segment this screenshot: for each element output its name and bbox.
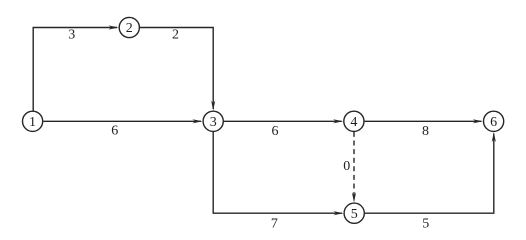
wire edge 1->3 (horizontal) (43, 119, 202, 123)
svg-text:3: 3 (210, 115, 217, 130)
wire edge 5->6 (right then up) (365, 132, 496, 213)
svg-text:7: 7 (271, 216, 278, 228)
svg-text:3: 3 (68, 28, 75, 43)
svg-text:2: 2 (126, 21, 133, 36)
svg-text:1: 1 (29, 115, 36, 130)
node 2 circle (119, 17, 139, 37)
wire edge 4->5 (dashed dummy activity, vertical) (352, 132, 356, 203)
wire edge 3->4 (horizontal) (224, 119, 343, 123)
svg-text:2: 2 (172, 28, 179, 43)
node 5 circle (344, 203, 364, 223)
svg-text:8: 8 (422, 124, 429, 139)
wire edge 3->5 (down then right) (213, 132, 343, 215)
wire edge 4->6 (horizontal) (365, 119, 483, 123)
node 1 circle (22, 111, 42, 131)
node 4 circle (344, 111, 364, 131)
wire edge 1->2 (up then right) (33, 25, 118, 111)
svg-text:6: 6 (111, 123, 118, 138)
wire edge 2->3 (right then down) (140, 28, 215, 111)
svg-text:5: 5 (422, 216, 429, 228)
svg-text:6: 6 (490, 115, 497, 130)
svg-text:6: 6 (272, 124, 279, 139)
svg-text:5: 5 (351, 207, 358, 222)
svg-text:0: 0 (343, 159, 350, 174)
node 6 circle (484, 111, 504, 131)
node 3 circle (203, 111, 223, 131)
svg-text:4: 4 (350, 115, 357, 130)
